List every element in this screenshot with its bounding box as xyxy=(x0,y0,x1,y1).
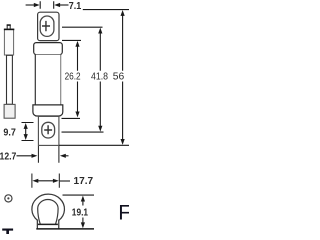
svg-text:19.1: 19.1 xyxy=(72,207,88,218)
main view: collar xyxy=(33,105,63,116)
side view: cap xyxy=(4,29,13,55)
circle-dot symbol xyxy=(5,195,12,202)
terminal cross xyxy=(44,125,52,134)
side view: base xyxy=(4,104,15,118)
svg-text:T: T xyxy=(2,224,14,234)
dim 17.7 xyxy=(32,174,59,188)
dim 19.1 xyxy=(63,194,95,196)
svg-text:12.7: 12.7 xyxy=(0,151,16,163)
line 41.8 xyxy=(99,31,101,128)
dim 12.7 xyxy=(17,155,33,157)
line 26.2 xyxy=(77,44,79,114)
clip: outer arch xyxy=(32,194,65,220)
svg-text:56: 56 xyxy=(113,71,125,82)
ref 56 top xyxy=(83,9,129,11)
line 56 xyxy=(122,14,124,143)
svg-text:26.2: 26.2 xyxy=(65,70,81,81)
svg-text:17.7: 17.7 xyxy=(74,176,94,187)
ref 41.8 top xyxy=(62,26,103,28)
side view: top nub xyxy=(7,25,10,28)
clip: feet xyxy=(37,220,58,229)
witness lines 12.7 xyxy=(38,146,59,163)
clip: inner arch xyxy=(38,200,58,225)
main view: body xyxy=(35,55,60,105)
clip: base top xyxy=(38,223,58,225)
dim 7.1 xyxy=(26,4,37,6)
main view: shoulder xyxy=(34,43,63,55)
svg-text:7.1: 7.1 xyxy=(69,0,82,12)
side view: body xyxy=(7,55,13,104)
svg-text:41.8: 41.8 xyxy=(91,71,108,83)
svg-text:9.7: 9.7 xyxy=(3,127,15,139)
terminal oval xyxy=(42,122,55,138)
svg-text:F: F xyxy=(118,201,129,224)
terminal bottom ref xyxy=(59,144,129,146)
ref 26.2 top xyxy=(62,39,81,41)
main view: bottom terminal xyxy=(38,116,59,145)
dim 9.7 xyxy=(22,123,34,141)
main view: cap xyxy=(38,12,59,40)
main view: cross xyxy=(42,21,50,31)
main view: indicator oval xyxy=(40,16,54,36)
clip: bottom line + 19.1 bottom ref xyxy=(36,228,94,230)
